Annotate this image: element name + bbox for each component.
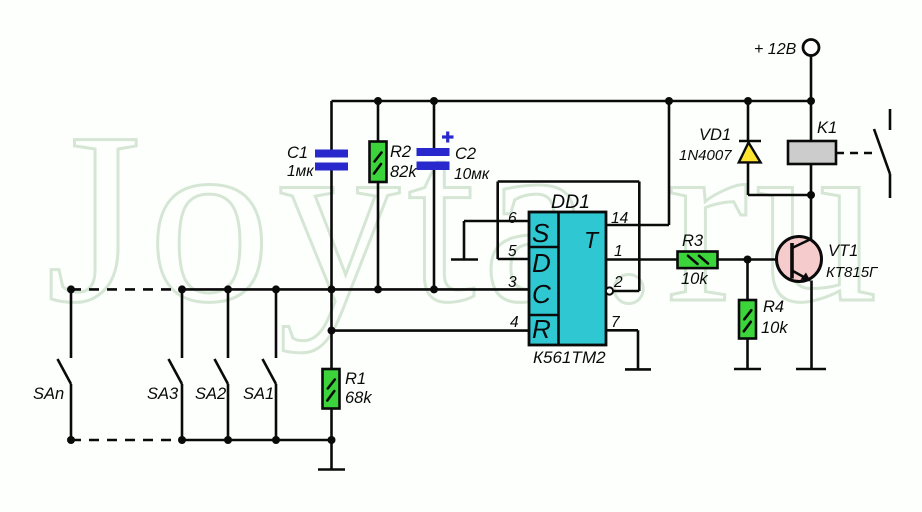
svg-text:6: 6 bbox=[508, 210, 517, 227]
relay contact switch bbox=[874, 109, 890, 198]
svg-text:1мк: 1мк bbox=[287, 163, 314, 180]
resistor R2 bbox=[370, 142, 387, 183]
transistor VT1 bbox=[777, 237, 822, 282]
junction dots C row bbox=[67, 285, 438, 293]
wire top power rail bbox=[332, 100, 812, 103]
pin 7 wire bbox=[606, 330, 638, 369]
wire K1 to collector node bbox=[810, 164, 813, 240]
wire 12V drop to K1 bbox=[810, 56, 813, 142]
ground for pin 7 bbox=[625, 368, 651, 371]
wire C2 top lead bbox=[433, 101, 436, 148]
switch SA3 bbox=[169, 289, 183, 440]
svg-text:C1: C1 bbox=[287, 144, 308, 162]
relay coil K1 bbox=[788, 141, 836, 164]
svg-text:VT1: VT1 bbox=[828, 242, 858, 260]
svg-text:К561ТМ2: К561ТМ2 bbox=[533, 348, 606, 367]
junction dots bottom rail bbox=[67, 436, 336, 444]
pin 1 wire to R3 bbox=[606, 258, 678, 261]
svg-text:10k: 10k bbox=[761, 319, 788, 337]
switch SAn bbox=[58, 289, 72, 440]
pin 2 inverter bubble bbox=[606, 287, 613, 294]
svg-text:68k: 68k bbox=[345, 389, 372, 407]
watermark Joyta.ru bbox=[46, 82, 885, 353]
svg-text:R3: R3 bbox=[682, 232, 704, 250]
junction dot base node bbox=[744, 256, 752, 264]
svg-text:R4: R4 bbox=[763, 298, 784, 316]
relay contact dashed link bbox=[836, 152, 876, 155]
wire R2 top lead bbox=[377, 101, 380, 142]
svg-text:C: C bbox=[532, 279, 551, 309]
wire C row to pin 3 bbox=[182, 288, 529, 291]
resistor R4 bbox=[739, 260, 756, 370]
wire C1 riser bbox=[330, 101, 333, 150]
svg-text:DD1: DD1 bbox=[551, 191, 590, 213]
wire D feedback loop bbox=[498, 182, 640, 292]
svg-text:2: 2 bbox=[613, 274, 623, 291]
wire bottom rail bbox=[182, 439, 332, 442]
svg-text:T: T bbox=[584, 227, 600, 253]
wire emitter to ground bbox=[810, 281, 813, 370]
svg-text:SAn: SAn bbox=[33, 385, 64, 403]
ground below R1 bbox=[318, 468, 345, 471]
ground for R4 bbox=[734, 368, 761, 371]
wire C2 bottom lead bbox=[433, 170, 436, 289]
diode VD1 1N4007 bbox=[739, 101, 811, 195]
svg-text:D: D bbox=[532, 248, 551, 278]
C2 plus sign bbox=[442, 132, 454, 143]
svg-text:SA2: SA2 bbox=[195, 385, 226, 403]
svg-text:1: 1 bbox=[614, 243, 623, 260]
junction dot R row bbox=[328, 327, 336, 335]
terminal +12V bbox=[803, 40, 819, 56]
switch SA2 bbox=[215, 289, 229, 440]
ground for S input bbox=[451, 258, 478, 261]
svg-text:1N4007: 1N4007 bbox=[679, 147, 732, 164]
svg-text:SA3: SA3 bbox=[147, 385, 179, 403]
pin 14 wire bbox=[606, 101, 669, 225]
capacitor C2 polarized bbox=[417, 148, 450, 170]
svg-text:5: 5 bbox=[508, 243, 517, 260]
capacitor C1 bbox=[315, 150, 348, 171]
svg-text:R2: R2 bbox=[390, 143, 411, 161]
wire C1 bottom lead down through C and R rows to R1 bbox=[330, 171, 333, 370]
svg-text:K1: K1 bbox=[817, 119, 837, 137]
svg-text:C2: C2 bbox=[455, 145, 476, 163]
wire R1 bottom lead bbox=[330, 409, 333, 470]
svg-text:VD1: VD1 bbox=[699, 126, 731, 144]
svg-text:10k: 10k bbox=[681, 270, 708, 288]
svg-text:R1: R1 bbox=[345, 370, 366, 388]
op IC DD1 K561TM2 bbox=[529, 212, 606, 345]
svg-text:7: 7 bbox=[611, 314, 621, 331]
switch SA1 bbox=[263, 289, 277, 440]
svg-text:R: R bbox=[532, 314, 551, 344]
pin 6 wire to S bbox=[464, 220, 529, 223]
svg-text:+ 12В: + 12В bbox=[754, 41, 797, 58]
ground for emitter bbox=[796, 368, 826, 371]
svg-text:14: 14 bbox=[611, 210, 629, 227]
svg-text:3: 3 bbox=[508, 274, 517, 291]
junction dot VD1 anode node bbox=[807, 191, 815, 199]
wire R2 bottom lead bbox=[377, 182, 380, 289]
svg-text:82k: 82k bbox=[390, 163, 417, 181]
resistor R3 bbox=[678, 252, 718, 269]
resistor R1 bbox=[323, 369, 340, 409]
svg-text:Joyta.ru: Joyta.ru bbox=[46, 82, 885, 353]
svg-text:КТ815Г: КТ815Г bbox=[826, 264, 879, 281]
svg-text:10мк: 10мк bbox=[454, 166, 490, 183]
junction dots top rail bbox=[374, 97, 815, 105]
wire R row to pin 4 bbox=[332, 329, 530, 332]
pin 5 wire to D bbox=[498, 258, 529, 261]
svg-text:4: 4 bbox=[510, 314, 519, 331]
wire bottom rail dashed segment bbox=[71, 439, 182, 442]
pin 2 wire bbox=[613, 290, 639, 293]
wire C row dashed segment bbox=[71, 288, 182, 291]
wire R3 to base bbox=[718, 258, 791, 261]
svg-text:SA1: SA1 bbox=[243, 385, 274, 403]
svg-text:S: S bbox=[532, 218, 550, 248]
pin 6 ground drop bbox=[463, 221, 466, 260]
